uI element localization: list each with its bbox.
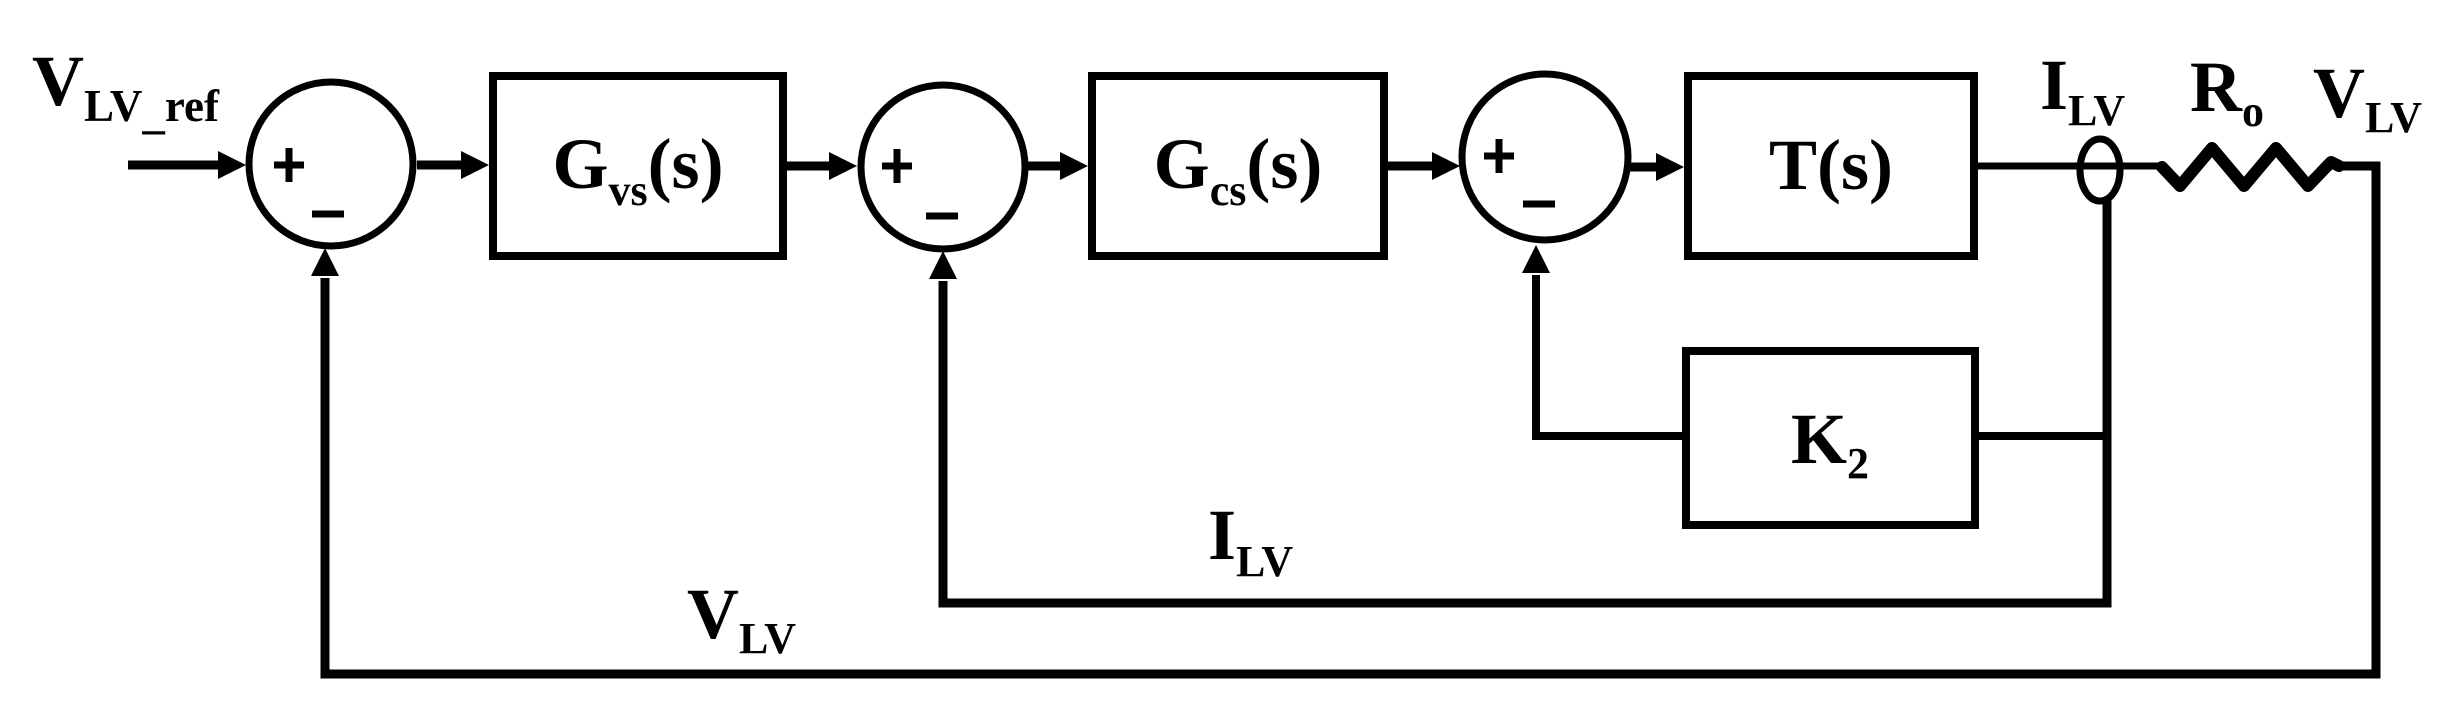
plus sign of S3 (1484, 139, 1514, 173)
svg-text:T(s): T(s) (1769, 125, 1893, 205)
arrowhead into summing junction S1 (218, 151, 246, 179)
block Gvs(s) voltage controller (493, 76, 783, 256)
block K2 feedback gain (1686, 351, 1975, 525)
arrowhead ILV feedback into S2 bottom (929, 251, 957, 279)
arrowhead into block Gvs (461, 151, 489, 179)
wire S2 to block Gcs (1025, 162, 1063, 171)
minus sign of S2 (926, 213, 958, 220)
resistor Ro zigzag (2162, 148, 2339, 186)
block Gcs(s) current controller (1092, 76, 1384, 256)
summing junction S2 (861, 85, 1025, 249)
arrowhead into block T (1656, 153, 1684, 181)
wire Gcs to summing junction S3 (1388, 162, 1433, 171)
plus sign of S2 (882, 149, 912, 183)
block T(s) converter plant (1688, 76, 1974, 256)
wire K2 output to S3 minus input (1536, 275, 1682, 436)
arrowhead VLV feedback into S1 bottom (311, 248, 339, 276)
arrowhead into block Gcs (1060, 152, 1088, 180)
wire T output to current sense node (1978, 163, 2162, 170)
wire sense node vertical to K2 branch junction (1979, 432, 2111, 440)
arrowhead into summing junction S2 (829, 152, 857, 180)
wire S1 to block Gvs (417, 161, 464, 170)
wire S3 to block T (1626, 163, 1661, 172)
wire input to summing junction S1 (128, 161, 222, 170)
wire resistor to right corner, VLV feedback down right side, along bottom, up to S1 (325, 166, 2376, 674)
current sense node ellipse (2080, 139, 2120, 201)
arrowhead into summing junction S3 (1432, 152, 1460, 180)
summing junction S1 (249, 82, 413, 246)
plus sign of S1 (274, 148, 304, 182)
minus sign of S1 (312, 211, 344, 218)
arrowhead K2 feedback into S3 bottom (1522, 245, 1550, 273)
wire ILV feedback from sense node down, left, up to S2 (943, 199, 2107, 603)
wire Gvs to summing junction S2 (787, 162, 832, 171)
minus sign of S3 (1523, 201, 1555, 208)
summing junction S3 (1462, 74, 1628, 240)
